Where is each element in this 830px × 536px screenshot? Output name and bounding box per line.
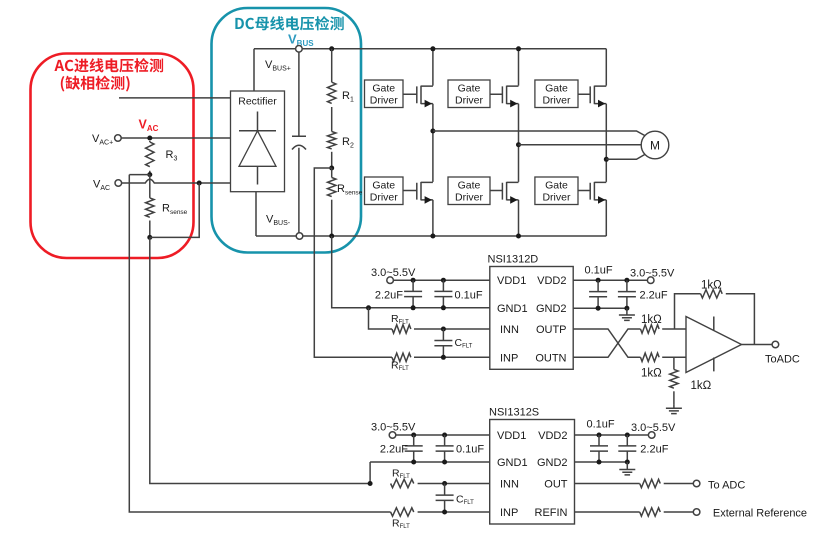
wire: GND1 drop to INN row (S) — [369, 462, 371, 484]
terminal VAC+ — [115, 135, 122, 142]
wire: REFIN row (S) — [575, 511, 640, 513]
node: top rail tap 2 — [516, 46, 521, 51]
transistor Q1L — [403, 182, 433, 201]
svg-text:NSI1312S: NSI1312S — [489, 407, 539, 419]
svg-text:VDD2: VDD2 — [537, 275, 566, 287]
wire: phase U to motor — [433, 131, 646, 136]
svg-text:Rectifier: Rectifier — [238, 96, 277, 108]
svg-text:RFLT: RFLT — [391, 313, 409, 326]
capacitor 2.2uF (S left) — [405, 435, 423, 462]
wire: rectifier + output up to bus — [253, 49, 255, 91]
node: phase 1 — [430, 129, 435, 134]
wire: DC+ top rail — [254, 48, 606, 50]
capacitor CFLT (S) — [436, 484, 454, 513]
node: R3 bottom junction — [147, 172, 152, 177]
svg-text:Gate: Gate — [458, 83, 481, 95]
svg-text:Gate: Gate — [545, 180, 568, 192]
wire: OUTP with crossover — [573, 329, 640, 357]
IC NSI1312S — [490, 420, 575, 525]
svg-text:Driver: Driver — [370, 192, 399, 204]
node: top rail tap 1 — [430, 46, 435, 51]
svg-text:0.1uF: 0.1uF — [456, 444, 484, 456]
wire: GND1 row (D) — [366, 305, 371, 310]
annotation box: DC bus voltage detection (teal) — [212, 8, 362, 253]
resistor R2 — [331, 107, 333, 132]
svg-text:VDD1: VDD1 — [497, 430, 526, 442]
wire: VDD1 row (D) — [393, 279, 490, 281]
resistor 1k (to op-amp -) — [641, 353, 660, 361]
svg-text:M: M — [650, 139, 660, 153]
resistor RFLT (D INN) — [392, 325, 411, 333]
annotation box: AC line voltage detection (red) — [31, 54, 194, 259]
node: divider bottom on rail — [329, 234, 334, 239]
ground (D GND2) — [619, 308, 635, 320]
capacitor 2.2uF (S right) — [618, 435, 636, 462]
wire: top rectifier input — [119, 97, 231, 99]
ground (S GND2) — [619, 462, 635, 475]
resistor RFLT (S INP) — [391, 508, 414, 516]
motor M1 — [641, 131, 669, 159]
svg-text:INN: INN — [500, 479, 519, 491]
wire: OUT row (S) — [575, 483, 640, 485]
svg-text:GND2: GND2 — [536, 303, 567, 315]
wire: VDD2 row (D) — [573, 279, 648, 281]
gate driver U3 (high side) — [535, 80, 578, 108]
gate driver U5 (low side) — [448, 177, 490, 205]
svg-text:To ADC: To ADC — [708, 480, 745, 492]
bus capacitor (polarized) — [292, 52, 306, 233]
svg-text:0.1uF: 0.1uF — [455, 290, 483, 302]
wire: half-bridge leg 2 — [518, 49, 520, 236]
terminal ToADC (op-amp) — [772, 341, 779, 348]
wire: DC- bottom rail — [256, 235, 606, 237]
terminal: 3.0~5.5V supply (D left) — [387, 277, 394, 284]
svg-text:3.0~5.5V: 3.0~5.5V — [630, 268, 675, 280]
svg-text:CFLT: CFLT — [456, 494, 474, 507]
wire: R3 bottom to left drop — [129, 174, 150, 176]
diode inside rectifier — [239, 112, 276, 131]
resistor RFLT (S INN) — [391, 479, 414, 487]
svg-text:R1: R1 — [342, 90, 354, 104]
wire: phase V to motor — [519, 144, 642, 146]
svg-text:INP: INP — [500, 352, 518, 364]
node: divider midpoint — [329, 166, 334, 171]
svg-text:2.2uF: 2.2uF — [640, 290, 668, 302]
svg-text:1kΩ: 1kΩ — [701, 280, 722, 292]
wire: rectifier - output down to bus return — [255, 192, 257, 236]
terminal To ADC (S) — [693, 480, 700, 487]
transistor Q2L — [490, 182, 519, 201]
capacitor 2.2uF (D left) — [404, 280, 422, 308]
transistor Q3H — [578, 86, 606, 105]
wire: VAC row with hop over R3 column — [121, 179, 230, 183]
svg-text:Driver: Driver — [542, 192, 571, 204]
resistor RFLT (D INP) — [392, 353, 411, 361]
svg-text:0.1uF: 0.1uF — [587, 419, 615, 431]
capacitor CFLT (D) — [434, 329, 452, 357]
svg-text:Driver: Driver — [370, 95, 399, 107]
resistor R3 — [146, 142, 154, 167]
wire: GND1 row (S) — [370, 461, 490, 463]
node: bottom rail tap 1 — [430, 234, 435, 239]
svg-text:OUT: OUT — [544, 479, 568, 491]
wire: phase W to motor — [606, 154, 645, 159]
svg-text:Gate: Gate — [372, 83, 395, 95]
svg-text:3.0~5.5V: 3.0~5.5V — [371, 267, 416, 279]
svg-text:External Reference: External Reference — [713, 508, 807, 520]
wire: OUTN with crossover — [573, 329, 640, 357]
gate driver U6 (low side) — [535, 177, 578, 205]
svg-text:RFLT: RFLT — [392, 468, 410, 481]
resistor (S REFIN) — [640, 508, 661, 516]
wire: sense loop to VAC row — [150, 183, 199, 237]
resistor Rsense (DC) — [331, 168, 333, 178]
node VBUS (open) — [296, 46, 303, 53]
resistor Rsense (AC) — [149, 175, 151, 198]
wire: GND2 row (S) — [575, 461, 628, 463]
wire: GND2 row (D) — [573, 307, 627, 309]
node: R3 top junction — [147, 136, 152, 141]
transistor Q2H — [490, 86, 519, 105]
svg-text:GND1: GND1 — [497, 457, 528, 469]
wire: half-bridge leg 3 — [605, 49, 607, 236]
svg-text:Gate: Gate — [458, 180, 481, 192]
svg-text:VBUS+: VBUS+ — [265, 59, 291, 73]
svg-text:VAC: VAC — [93, 179, 110, 193]
IC NSI1312D — [490, 267, 573, 370]
op-amp power stubs — [713, 317, 715, 372]
wire: long run R3-node down to NSI1312S INP row — [129, 175, 390, 512]
svg-text:Gate: Gate — [545, 83, 568, 95]
svg-text:R3: R3 — [166, 149, 178, 163]
svg-text:1kΩ: 1kΩ — [641, 368, 662, 380]
resistor (S OUT) — [640, 479, 661, 487]
terminal External Reference — [693, 509, 700, 516]
node VBUS- (open) — [296, 233, 303, 240]
svg-text:OUTP: OUTP — [536, 324, 567, 336]
rectifier block — [231, 91, 285, 192]
wire: feedback branch — [675, 294, 701, 329]
node: divider top — [329, 46, 334, 51]
node: phase 2 — [516, 142, 521, 147]
wire: GND1 to INN branch — [369, 308, 393, 329]
resistor 1k (to ground) — [673, 357, 675, 369]
transistor Q1H — [403, 86, 433, 105]
svg-text:REFIN: REFIN — [535, 507, 568, 519]
svg-text:3.0~5.5V: 3.0~5.5V — [371, 422, 416, 434]
wire: half-bridge leg 1 — [432, 49, 434, 236]
svg-text:1kΩ: 1kΩ — [641, 314, 662, 326]
capacitor 2.2uF (D right) — [618, 280, 636, 308]
capacitor 0.1uF (D right) — [589, 280, 607, 308]
node: Rsense bottom — [147, 235, 152, 240]
wire: op-amp output — [742, 344, 773, 346]
svg-text:Gate: Gate — [372, 180, 395, 192]
svg-text:R2: R2 — [342, 136, 354, 150]
terminal: 3.0~5.5V supply (D right) — [647, 277, 654, 284]
terminal VAC — [115, 180, 122, 187]
svg-text:1kΩ: 1kΩ — [691, 380, 712, 392]
svg-text:2.2uF: 2.2uF — [375, 290, 403, 302]
svg-text:Rsense: Rsense — [337, 183, 363, 197]
label: DC母线电压检测 (teal heading) — [235, 16, 343, 30]
svg-text:ToADC: ToADC — [765, 354, 800, 366]
svg-text:NSI1312D: NSI1312D — [488, 254, 539, 266]
svg-text:INP: INP — [500, 507, 518, 519]
wire: bus return down to NSI1312D GND1 row — [332, 236, 490, 308]
wire: long run Rsense bottom down to NSI1312S INN row — [150, 237, 370, 483]
gate driver U1 (high side) — [365, 80, 404, 108]
svg-text:Driver: Driver — [542, 95, 571, 107]
node: VAC row / sense loop junction — [197, 181, 202, 186]
resistor 1k (feedback) — [701, 290, 723, 298]
svg-text:Driver: Driver — [455, 192, 484, 204]
gate driver U4 (low side) — [365, 177, 404, 205]
wire: VDD2 row (S) — [575, 434, 649, 436]
svg-text:OUTN: OUTN — [535, 352, 566, 364]
svg-text:VDD2: VDD2 — [538, 430, 567, 442]
capacitor 0.1uF (S left) — [436, 435, 454, 462]
wire: divider midpoint to NSI1312D INP row — [314, 168, 392, 357]
svg-text:0.1uF: 0.1uF — [585, 265, 613, 277]
svg-text:2.2uF: 2.2uF — [640, 444, 668, 456]
svg-text:GND1: GND1 — [497, 303, 528, 315]
label: （缺相检测） (red heading line 2) — [61, 76, 130, 92]
label: AC进线电压检测 (red heading) — [54, 58, 163, 72]
capacitor 0.1uF (S right) — [590, 435, 608, 462]
svg-text:GND2: GND2 — [537, 457, 568, 469]
svg-text:VAC: VAC — [139, 118, 159, 134]
svg-text:RFLT: RFLT — [392, 518, 410, 531]
svg-text:VBUS-: VBUS- — [266, 214, 291, 228]
ground (op-amp divider) — [666, 404, 682, 413]
terminal: 3.0~5.5V supply (S left) — [389, 432, 396, 439]
svg-text:VAC+: VAC+ — [92, 133, 113, 147]
svg-text:2.2uF: 2.2uF — [380, 444, 408, 456]
svg-text:Rsense: Rsense — [162, 203, 188, 217]
svg-text:CFLT: CFLT — [455, 337, 473, 350]
wire: VAC+ row to rectifier — [121, 137, 231, 139]
svg-text:INN: INN — [500, 324, 519, 336]
svg-text:3.0~5.5V: 3.0~5.5V — [631, 422, 676, 434]
svg-text:VDD1: VDD1 — [497, 275, 526, 287]
transistor Q3L — [578, 182, 606, 201]
svg-text:Driver: Driver — [455, 95, 484, 107]
op-amp U1 — [686, 317, 742, 373]
resistor R1 — [331, 49, 333, 82]
wire: VDD1 row (S) — [396, 434, 490, 436]
resistor 1k (to op-amp +) — [641, 325, 660, 333]
node: bottom rail tap 2 — [516, 234, 521, 239]
gate driver U2 (high side) — [448, 80, 490, 108]
node: phase 3 — [604, 157, 609, 162]
terminal: 3.0~5.5V supply (S right) — [648, 432, 655, 439]
capacitor 0.1uF (D left) — [434, 280, 452, 308]
